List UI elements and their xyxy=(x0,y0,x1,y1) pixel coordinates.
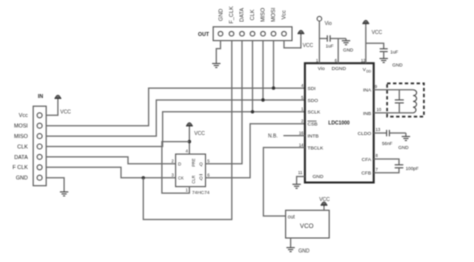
capacitor C4 56nF xyxy=(386,130,388,136)
svg-text:CK: CK xyxy=(178,176,184,181)
wire OUT MOSI drop xyxy=(273,41,275,89)
wire VCC stem to PRE pin 4 xyxy=(188,129,190,155)
wire OUT Vcc pin to VCC xyxy=(284,36,301,48)
svg-text:DATA: DATA xyxy=(240,8,246,22)
capacitor C1 1uF (Vio bypass) xyxy=(319,38,327,40)
power symbol VCC at U1 Vdd xyxy=(362,20,369,26)
svg-text:GND: GND xyxy=(343,48,354,53)
wire DGND to ground rail xyxy=(337,39,339,64)
wire CLK net (IN CLK to U1 SCLK) xyxy=(46,112,305,147)
svg-text:11: 11 xyxy=(298,170,303,175)
wire MOSI net (IN MOSI to U1 SDI) xyxy=(46,88,305,126)
svg-text:IN: IN xyxy=(38,94,43,100)
connector J2 pin name labels (rotated) xyxy=(218,6,287,24)
ground at Vdd bypass xyxy=(380,59,388,63)
power symbol VCC at U2 xyxy=(186,123,193,129)
svg-text:CLK: CLK xyxy=(17,144,28,150)
svg-text:OUT: OUT xyxy=(198,32,210,38)
svg-text:TBCLK: TBCLK xyxy=(308,145,325,151)
svg-text:SDI: SDI xyxy=(308,86,316,92)
svg-text:Vcc: Vcc xyxy=(19,113,28,119)
svg-text:D: D xyxy=(178,162,181,167)
svg-text:13: 13 xyxy=(376,127,381,132)
svg-text:DGND: DGND xyxy=(332,66,347,72)
svg-text:VCO: VCO xyxy=(300,223,314,230)
sensor dashed box xyxy=(387,83,424,116)
connector J2 OUT header box xyxy=(213,27,292,41)
svg-text:CFB: CFB xyxy=(361,171,371,177)
power symbol VCC at IN xyxy=(55,95,62,101)
wire Vio to U1 pin 1 xyxy=(318,21,320,63)
capacitor C3 sensor tank cap xyxy=(398,90,400,100)
U1 left pin names xyxy=(308,86,325,180)
svg-text:100pF: 100pF xyxy=(406,166,419,171)
svg-text:SDO: SDO xyxy=(308,98,319,104)
wire U2 Q pin5 to OUT DATA xyxy=(206,41,243,164)
ground at IN connector xyxy=(60,192,68,196)
svg-text:GND: GND xyxy=(398,145,409,150)
svg-text:VCC: VCC xyxy=(60,110,71,116)
IC U1 LDC1000 box xyxy=(305,63,374,182)
U1 right pin names xyxy=(358,88,372,177)
wire IN GND to ground xyxy=(46,178,64,192)
svg-text:F CLK: F CLK xyxy=(13,165,29,171)
wire F_CLK net (IN F CLK to U2 CK) xyxy=(46,167,175,178)
svg-text:1uF: 1uF xyxy=(390,49,398,54)
U2 pin numbers xyxy=(171,149,210,193)
svg-text:MISO: MISO xyxy=(261,7,267,22)
svg-text:1uF: 1uF xyxy=(326,44,334,49)
wire U1 INB to sensor xyxy=(374,112,413,114)
svg-text:CLDO: CLDO xyxy=(358,131,372,137)
ground at C4 xyxy=(405,133,407,137)
capacitor C5 100pF xyxy=(395,164,404,166)
svg-text:GND: GND xyxy=(16,176,28,182)
svg-text:Vio: Vio xyxy=(318,66,325,72)
svg-text:GND: GND xyxy=(392,63,403,68)
svg-text:VCC: VCC xyxy=(372,30,383,36)
svg-text:16: 16 xyxy=(299,130,304,135)
svg-text:DD: DD xyxy=(366,69,371,73)
wire INTB N.B. stub xyxy=(283,135,305,137)
svg-text:CFA: CFA xyxy=(362,157,372,163)
svg-text:CLK: CLK xyxy=(250,9,256,20)
inductor L1 sensor coil xyxy=(413,90,417,113)
wire U1 TBCLK to VCO out xyxy=(263,148,305,217)
ground at OUT connector xyxy=(212,64,220,68)
svg-text:74HC74: 74HC74 xyxy=(192,190,210,196)
wire OUT MISO drop xyxy=(262,41,264,100)
svg-text:GND: GND xyxy=(218,9,224,21)
wire MISO net (IN MISO to U1 SDO) xyxy=(46,100,305,136)
svg-text:LDC1000: LDC1000 xyxy=(328,120,350,126)
ground at U1 GND xyxy=(292,184,300,188)
node F_CLK junction xyxy=(142,176,145,179)
node CLK junction xyxy=(251,110,254,113)
wire IN Vcc to VCC xyxy=(46,101,58,115)
svg-text:Q: Q xyxy=(199,176,203,181)
svg-text:INTB: INTB xyxy=(308,134,319,140)
U1 top pin names xyxy=(318,66,372,74)
wire U1 CFB to C5 xyxy=(374,168,399,173)
svg-text:DATA: DATA xyxy=(14,155,28,161)
svg-text:CLR: CLR xyxy=(191,175,196,183)
ground at VCO xyxy=(286,248,294,252)
svg-text:F_CLK: F_CLK xyxy=(229,6,235,24)
wire VCC to U1 pin 12 xyxy=(365,26,367,63)
oscillator VCO box xyxy=(286,210,330,238)
svg-text:N.B.: N.B. xyxy=(268,134,278,140)
wire DATA net (IN DATA to U2 D) xyxy=(46,157,175,164)
wire U1 CFA to C5 xyxy=(374,159,399,165)
connector J1 IN header box xyxy=(33,106,46,186)
svg-text:10: 10 xyxy=(377,107,382,112)
svg-text:Vcc: Vcc xyxy=(282,10,288,20)
svg-text:Q: Q xyxy=(199,162,203,167)
connector J1 pin name labels xyxy=(13,113,29,181)
node MISO junction xyxy=(261,98,264,101)
svg-text:MISO: MISO xyxy=(14,134,28,140)
U2 pin names inside xyxy=(178,158,203,183)
flip-flop U2 74HC74 box xyxy=(176,154,206,187)
svg-text:out: out xyxy=(288,214,296,220)
svg-text:INB: INB xyxy=(363,111,371,117)
node MOSI junction xyxy=(272,86,275,89)
svg-text:VCC: VCC xyxy=(303,43,314,49)
svg-text:SCLK: SCLK xyxy=(308,110,322,116)
wire F_CLK loop to OUT F_CLK xyxy=(143,41,232,220)
wire OUT GND pin to ground xyxy=(216,41,220,64)
wire U1 INA to sensor xyxy=(374,89,413,91)
wire U2 Qbar pin6 to U1 CSB xyxy=(206,124,305,178)
U1 pin numbers xyxy=(298,58,382,175)
svg-text:Vio: Vio xyxy=(325,21,332,27)
power symbol VCC at OUT xyxy=(298,30,305,36)
svg-text:INA: INA xyxy=(363,88,372,94)
svg-text:14: 14 xyxy=(299,142,304,147)
ground at Vio bypass xyxy=(345,39,347,41)
power symbol Vio xyxy=(317,16,322,21)
wire U1 GND pin 11 to ground xyxy=(297,177,305,185)
svg-text:MOSI: MOSI xyxy=(14,124,28,130)
node U2 vcc junction xyxy=(188,140,191,143)
svg-text:GND: GND xyxy=(298,248,310,254)
svg-text:56nF: 56nF xyxy=(382,141,393,146)
svg-text:CSB: CSB xyxy=(308,122,318,128)
svg-text:PRE: PRE xyxy=(191,158,196,167)
svg-text:GND: GND xyxy=(313,174,324,180)
svg-text:VCC: VCC xyxy=(194,131,205,137)
wire U1 CLDO to C4 xyxy=(374,132,387,134)
svg-text:MOSI: MOSI xyxy=(271,7,277,22)
wire CLR pull-up loop xyxy=(162,142,190,194)
wire OUT CLK drop xyxy=(252,41,254,112)
capacitor C2 1uF (Vdd bypass) xyxy=(366,43,384,49)
wire VCO to ground xyxy=(290,238,292,248)
